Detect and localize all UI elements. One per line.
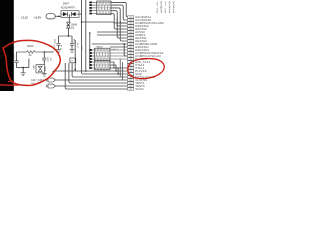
- node junction: [58, 16, 59, 17]
- ground: [21, 72, 26, 74]
- wire vertical bus B: [85, 0, 87, 71]
- ground: [42, 72, 47, 74]
- wire: [97, 34, 128, 36]
- wire: [16, 52, 18, 61]
- junction: [68, 35, 70, 37]
- wire: [65, 63, 127, 89]
- svg-text:D407: D407: [63, 2, 70, 6]
- svg-text:3K: 3K: [29, 55, 32, 57]
- wire: [52, 71, 54, 75]
- capacitor C410: [70, 42, 74, 44]
- wire: [97, 31, 128, 33]
- svg-text:+3.3V: +3.3V: [34, 16, 42, 20]
- wire: [17, 67, 29, 69]
- wire: [117, 18, 127, 38]
- svg-text:GND: GND: [34, 65, 36, 70]
- junction: [22, 67, 24, 69]
- dual diode D407: [61, 11, 79, 18]
- svg-text:C409: C409: [55, 38, 57, 44]
- wire pentagon2 line: [56, 85, 128, 87]
- ground: [69, 49, 74, 51]
- resistor array RA409: [95, 61, 111, 70]
- offpage connector arrow 1: [48, 78, 56, 82]
- wire: [124, 44, 127, 56]
- junction: [115, 70, 116, 71]
- ferrite bead L401: [46, 14, 55, 19]
- svg-text:0.1u: 0.1u: [61, 45, 63, 49]
- svg-text:+1.2V: +1.2V: [77, 42, 79, 48]
- wire: [43, 52, 45, 58]
- wire: [71, 36, 73, 43]
- junction: [117, 73, 118, 74]
- wire: [44, 51, 53, 53]
- wire center tap: [68, 14, 70, 22]
- wire fanout RA401 to pins: [111, 2, 128, 17]
- wire: [55, 15, 61, 17]
- wire: [71, 45, 73, 49]
- wire: [74, 40, 76, 71]
- connector pads P401: [89, 2, 91, 4]
- connector pads mid: [89, 49, 91, 51]
- svg-text:V: V: [165, 10, 167, 14]
- wire: [58, 36, 60, 43]
- capacitor C412: [42, 57, 46, 59]
- wire: [53, 70, 128, 72]
- TVS diode D408: [67, 22, 71, 25]
- junction: [44, 51, 46, 53]
- diode box D409: [36, 65, 44, 73]
- wire: [110, 46, 128, 48]
- wire zener to node: [67, 28, 69, 36]
- wire: [43, 72, 45, 74]
- resistor R463: [17, 51, 27, 53]
- svg-text:C412: C412: [48, 56, 50, 62]
- wire: [22, 68, 24, 73]
- wire vertical bus A: [82, 0, 128, 74]
- ground: [56, 49, 61, 51]
- junction: [89, 32, 91, 34]
- svg-text:SCAN: SCAN: [135, 87, 143, 91]
- svg-text:[1,2]: [1,2]: [22, 16, 28, 20]
- wire D407 output: [79, 13, 82, 15]
- wire: [89, 33, 91, 68]
- connector pads mid2: [89, 61, 91, 63]
- wire pentagon1 line: [56, 79, 128, 81]
- wire: [43, 60, 45, 65]
- svg-text:V: V: [156, 10, 158, 14]
- wire RA408 outputs: [110, 49, 128, 51]
- wire row feed: [82, 22, 128, 23]
- svg-text:35: 35: [130, 89, 132, 91]
- svg-text:RA408: RA408: [96, 46, 103, 49]
- junction: [81, 21, 83, 23]
- junction: [123, 43, 125, 45]
- component box C448: [70, 58, 76, 63]
- junction: [85, 70, 87, 72]
- black sidebar panel: [0, 0, 14, 91]
- wire: [120, 21, 127, 41]
- IC pin rows with numbers and net labels: [128, 16, 134, 18]
- red annotation ellipse small: [128, 59, 164, 79]
- resistor array RA401: [97, 1, 111, 15]
- wire: [28, 59, 30, 68]
- red annotation ellipse large: [3, 40, 60, 85]
- svg-text:C565: C565: [14, 54, 16, 60]
- wire: [58, 45, 60, 49]
- wire RA409 staircase outputs: [110, 62, 128, 68]
- node wire: [59, 35, 73, 37]
- capacitor C565: [14, 60, 18, 62]
- wire: [72, 63, 127, 77]
- capacitor C409: [56, 42, 60, 44]
- wire: [69, 63, 128, 83]
- svg-text:R463: R463: [27, 44, 34, 48]
- wire: [16, 63, 18, 68]
- junction: [74, 69, 76, 71]
- svg-text:KDS184RTK: KDS184RTK: [61, 7, 76, 10]
- resistor array RA408: [95, 48, 111, 60]
- wire: [92, 43, 128, 45]
- offpage connector arrow 2: [48, 84, 56, 88]
